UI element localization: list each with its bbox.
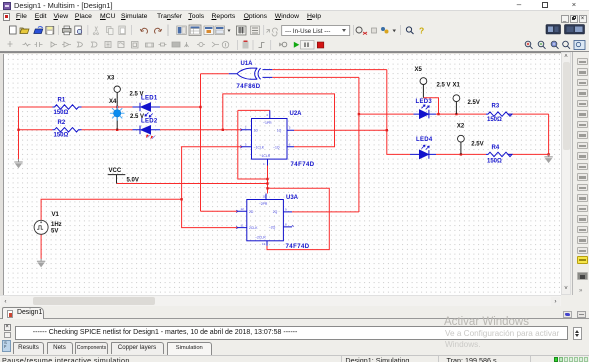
junction VCC node A (266, 178, 268, 180)
svg-text:X3: X3 (107, 75, 115, 81)
svg-text:4: 4 (266, 113, 268, 117)
svg-text:2Q: 2Q (273, 210, 278, 214)
watermark (444, 316, 529, 328)
resistor R3 (486, 112, 512, 116)
svg-text:10: 10 (263, 195, 267, 199)
spreadsheet panel (0, 319, 589, 355)
svg-text:R2: R2 (58, 120, 66, 126)
open folder (20, 29, 29, 34)
canvas (0, 52, 561, 295)
print preview (75, 26, 82, 35)
probe X3 (107, 75, 144, 107)
svg-text:~2Q: ~2Q (269, 225, 276, 229)
svg-text:12: 12 (241, 207, 245, 211)
junction X4 stem / row2 (116, 129, 118, 131)
probe X5 (415, 67, 451, 98)
svg-text:11: 11 (241, 224, 244, 228)
svg-text:R4: R4 (492, 145, 500, 151)
status bar (0, 355, 589, 362)
design toolbox icons group (177, 26, 187, 35)
svg-text:2CLK: 2CLK (249, 226, 258, 230)
svg-text:2: 2 (245, 126, 247, 130)
svg-text:1Q: 1Q (277, 129, 282, 133)
junction X1 stem / LED3 row (455, 113, 457, 115)
svg-text:U2A: U2A (290, 111, 303, 117)
in-use list combo (282, 25, 354, 36)
svg-text:U3A: U3A (286, 195, 299, 201)
svg-text:3: 3 (245, 143, 247, 147)
two small icons below scroll corner (563, 311, 572, 318)
svg-text:~2CLR: ~2CLR (255, 236, 266, 240)
D flip-flop U2A (74F74D) (240, 110, 294, 165)
svg-text:2.5 V: 2.5 V (437, 83, 451, 89)
svg-text:~1CLK: ~1CLK (254, 145, 265, 149)
junction right vertical / R4 row (547, 153, 549, 155)
open samples folder (34, 29, 43, 34)
junction VCC node B (266, 182, 268, 184)
junction feedback / row2 (1D) (222, 129, 224, 131)
svg-text:5: 5 (289, 126, 291, 130)
svg-text:X2: X2 (457, 124, 465, 130)
wire U3A 2Q to XOR in2 / LED3 row (272, 77, 548, 212)
svg-text:8: 8 (285, 223, 287, 227)
wire U2A ~1Q feedback to 1D (223, 94, 335, 147)
svg-text:~1CLR: ~1CLR (260, 154, 271, 158)
wire VCC net (117, 110, 330, 249)
svg-text:LED4: LED4 (416, 137, 433, 143)
wire U2A 1Q to XOR in1 / LED4 row (272, 70, 548, 155)
svg-text:74F86D: 74F86D (237, 84, 261, 90)
junction 1Q row / XOR in1 riser (386, 129, 388, 131)
svg-text:150Ω: 150Ω (487, 159, 502, 165)
svg-text:74F74D: 74F74D (286, 244, 310, 250)
save (46, 27, 54, 35)
wire row2 R2/LED2 net (19, 129, 243, 131)
probe X4 (lit) (109, 99, 144, 130)
svg-text:~1PR: ~1PR (263, 121, 272, 125)
LED LED4 (410, 145, 436, 159)
junction X5 drop / LED3 row (437, 113, 439, 115)
resistor R4 (486, 152, 512, 156)
svg-text:U1A: U1A (241, 61, 254, 67)
junction 2Q riser / LED3 row (358, 113, 360, 115)
resistor R1 (53, 105, 82, 109)
ground (right) (544, 154, 552, 163)
svg-text:2.5 V: 2.5 V (130, 92, 144, 98)
clock source V1 (1Hz 5V) (34, 212, 62, 234)
svg-text:VCC: VCC (109, 168, 122, 174)
ground (left) (14, 159, 22, 168)
vertical scrollbar (561, 52, 571, 295)
right dark toggle buttons (546, 25, 585, 35)
XOR gate U1A (74F86D) (229, 68, 272, 79)
svg-text:R3: R3 (492, 104, 500, 110)
probe X2 (457, 124, 484, 155)
svg-text:150Ω: 150Ω (54, 133, 69, 139)
toolbar row 2 icons (0, 38, 589, 52)
junction X4 stem / row1 (116, 106, 118, 108)
junction X2 stem / LED4 row (460, 153, 462, 155)
svg-text:1: 1 (263, 162, 265, 166)
svg-text:9: 9 (285, 208, 287, 212)
svg-text:74F74D: 74F74D (291, 162, 315, 168)
new (10, 26, 17, 34)
resistor R2 (53, 128, 82, 132)
svg-text:R1: R1 (58, 98, 66, 104)
wire row1 R1/LED1 net (19, 107, 201, 160)
junction XOR output / row1 (199, 106, 201, 108)
svg-text:X5: X5 (415, 67, 423, 73)
svg-text:X4: X4 (109, 99, 117, 105)
svg-text:2.5V: 2.5V (468, 100, 480, 106)
svg-text:2D: 2D (249, 210, 254, 214)
wire V1 to ground (40, 234, 42, 258)
printer (63, 29, 72, 33)
svg-text:5V: 5V (51, 228, 58, 234)
svg-text:LED1: LED1 (141, 96, 158, 102)
ground (under V1) (37, 259, 45, 268)
LED LED2 (lit, red arrows) (133, 126, 161, 135)
svg-text:5.0V: 5.0V (127, 177, 139, 183)
svg-text:13: 13 (262, 242, 266, 246)
probe X1 (453, 83, 480, 115)
svg-text:LED3: LED3 (416, 99, 433, 105)
wire XOR output to U3A 2D (201, 74, 238, 212)
LED LED1 (133, 103, 161, 117)
horizontal scrollbar (0, 295, 561, 306)
svg-text:1Hz: 1Hz (51, 222, 62, 228)
design tab row (0, 306, 589, 320)
svg-text:X1: X1 (453, 83, 461, 89)
right icon strip (572, 52, 589, 309)
junction left vertical / row2 (17, 129, 19, 131)
wire X5 tap (423, 98, 438, 114)
svg-text:V1: V1 (52, 212, 60, 218)
cut copy paste (disabled gray) (93, 27, 98, 35)
LED LED3 (414, 105, 437, 119)
svg-text:~1Q: ~1Q (273, 145, 280, 149)
toolbar row 1 icons (0, 23, 589, 38)
wire V1 clock net (41, 147, 242, 228)
junction VCC node C (266, 187, 268, 189)
svg-text:~2PR: ~2PR (259, 202, 268, 206)
power VCC (5.0V) (108, 168, 139, 184)
svg-text:150Ω: 150Ω (54, 110, 69, 116)
undo redo (140, 28, 147, 33)
svg-text:150Ω: 150Ω (487, 117, 502, 123)
svg-text:2.5V: 2.5V (471, 142, 483, 148)
D flip-flop U3A (74F74D) (236, 194, 293, 246)
svg-text:1D: 1D (254, 129, 259, 133)
svg-text:2.5 V: 2.5 V (130, 114, 144, 120)
junction V1 clock node (180, 198, 182, 200)
svg-text:6: 6 (289, 143, 291, 147)
zoom icons right (525, 40, 585, 49)
